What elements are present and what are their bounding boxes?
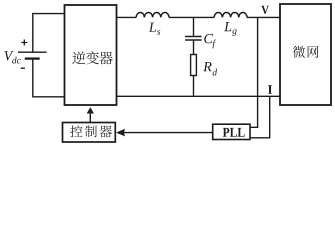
wire: bottom return bus through node I <box>117 95 281 97</box>
arrowhead into inverter <box>87 107 94 113</box>
wire: top node to capacitor Cf <box>193 17 195 36</box>
node label V <box>261 6 269 14</box>
inductor Ls <box>136 12 169 17</box>
battery plus sign <box>21 40 27 46</box>
inductor Lg <box>214 12 247 17</box>
label 控制器 (controller) <box>70 125 82 137</box>
battery Vdc short negative plate <box>25 57 40 59</box>
resistor Rd <box>191 55 197 76</box>
label Cf <box>204 34 213 43</box>
arrowhead into controller <box>116 129 125 137</box>
label 微网 (microgrid) <box>293 46 305 58</box>
wire: Cf to Rd <box>193 40 195 55</box>
wire: PLL output to controller <box>124 132 213 134</box>
wire: battery positive to inverter top-left <box>33 14 65 53</box>
node label I <box>268 85 272 94</box>
label 逆变器 (inverter) <box>72 51 85 64</box>
label Vdc <box>4 51 13 60</box>
wire: controller to inverter control line <box>89 113 91 123</box>
wire: Lg to microgrid through node V <box>247 16 280 18</box>
wire: V sense tap down to PLL input <box>250 17 258 127</box>
controller block <box>63 123 116 143</box>
wire: Rd to bottom bus <box>193 76 195 97</box>
label Lg <box>224 22 231 31</box>
battery minus sign <box>21 67 25 69</box>
microgrid block <box>280 4 331 105</box>
label PLL <box>223 128 230 137</box>
wire: battery negative to inverter bottom-left <box>33 59 65 97</box>
wire: Ls to filter node <box>169 16 194 18</box>
battery Vdc long positive plate <box>18 51 47 53</box>
label Rd <box>203 62 211 71</box>
wire: I sense tap down to PLL input <box>250 96 270 138</box>
inverter block <box>65 5 117 105</box>
wire: inverter output to Ls <box>117 16 137 18</box>
wire: filter node to Lg <box>194 16 215 18</box>
label Ls <box>149 23 156 32</box>
PLL block <box>213 124 250 139</box>
capacitor Cf plates <box>185 37 202 41</box>
